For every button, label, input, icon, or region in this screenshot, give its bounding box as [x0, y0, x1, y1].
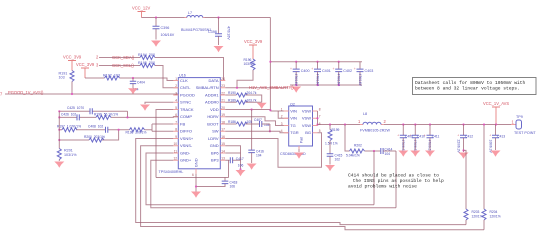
svg-text:C401: C401 — [322, 69, 331, 73]
capacitor C413 — [489, 125, 506, 154]
wire SDA to DATA pin24 — [155, 58, 224, 81]
svg-text:R190: R190 — [228, 91, 236, 95]
power symbol VCC_1V_AVS — [483, 101, 509, 126]
svg-text:220/6.3V: 220/6.3V — [457, 140, 461, 154]
svg-text:+: + — [311, 67, 313, 71]
svg-text:LDRV: LDRV — [208, 136, 219, 141]
wire BP row — [156, 177, 229, 179]
wire SCL to pin2 — [155, 66, 178, 88]
svg-text:SMBAL/RTN: SMBAL/RTN — [196, 85, 219, 90]
svg-text:GND: GND — [210, 143, 219, 148]
wire VSW merge — [317, 111, 319, 126]
ground (C411) — [425, 151, 435, 157]
U16 right pin names — [196, 78, 220, 163]
wire row B (to COMP pin6) — [59, 116, 178, 119]
wire R198 to FB pin7 — [145, 124, 174, 131]
svg-text:1: 1 — [175, 77, 177, 81]
svg-text:120/1%: 120/1% — [472, 215, 483, 219]
svg-text:TEST POINT: TEST POINT — [514, 131, 536, 135]
capacitor C414 — [381, 148, 396, 157]
svg-text:18: 18 — [221, 120, 225, 124]
svg-text:BP3: BP3 — [211, 158, 219, 163]
U16 left pin names — [180, 78, 195, 163]
wire SCL — [99, 65, 140, 67]
wire VSNS+ pin9 loop — [136, 139, 466, 225]
resistor R190 (ADDR1 pin22) — [225, 91, 261, 102]
svg-text:17: 17 — [221, 128, 225, 132]
wire GND pin15 down — [225, 146, 240, 170]
wire DIFFO pin8 down — [152, 130, 173, 132]
wire C414 right sense drop — [395, 151, 397, 208]
ground (C404) — [128, 88, 138, 94]
ground (C417 node) — [236, 170, 246, 176]
svg-text:TPS40400RHL: TPS40400RHL — [159, 170, 184, 174]
svg-text:1: 1 — [281, 107, 283, 111]
svg-text:BLM41PG750SN1: BLM41PG750SN1 — [181, 28, 211, 32]
capacitor C396 — [153, 18, 175, 40]
svg-text:R199: R199 — [332, 128, 340, 132]
capacitor C398 — [208, 18, 231, 46]
svg-text:3: 3 — [281, 122, 283, 126]
resistor R201 — [57, 149, 77, 162]
ground (C410) — [410, 151, 420, 157]
svg-text:1.5R 1%: 1.5R 1% — [325, 142, 338, 146]
svg-text:2: 2 — [281, 115, 283, 119]
capacitor C411 — [427, 123, 440, 153]
ground (U16 pad) — [191, 192, 201, 198]
wire row D — [59, 130, 118, 140]
note box (datasheet) — [413, 78, 537, 95]
wire bottom gnd rail — [290, 84, 362, 86]
transistor Q2 box — [280, 103, 313, 157]
capacitor C410 — [412, 123, 425, 153]
svg-text:+: + — [290, 67, 292, 71]
svg-text:FVMB0105-2R2W: FVMB0105-2R2W — [360, 129, 390, 133]
svg-text:4: 4 — [281, 129, 283, 133]
svg-text:VCC_1V_AVS: VCC_1V_AVS — [483, 101, 509, 106]
svg-text:6: 6 — [192, 173, 194, 177]
ground (SYNC pin4) — [140, 102, 173, 110]
svg-text:VIN: VIN — [290, 108, 297, 113]
svg-text:106: 106 — [230, 185, 236, 189]
svg-text:5: 5 — [319, 129, 321, 133]
svg-text:15: 15 — [221, 142, 225, 146]
polarity marks — [290, 67, 491, 138]
svg-text:TP9: TP9 — [516, 115, 523, 119]
svg-text:COMP: COMP — [180, 114, 192, 119]
svg-text:DATA: DATA — [209, 78, 219, 83]
svg-text:103.7k: 103.7k — [247, 98, 257, 102]
ground (C413) — [491, 151, 501, 157]
svg-text:R197 1.07K/1%: R197 1.07K/1% — [57, 125, 81, 129]
resistor R194 — [138, 53, 155, 60]
svg-text:VSW: VSW — [302, 108, 311, 113]
svg-text:BP6: BP6 — [211, 150, 219, 155]
wire output rail — [384, 124, 511, 126]
svg-text:104: 104 — [264, 123, 270, 127]
U16 right pin numbers — [221, 77, 225, 161]
svg-text:5: 5 — [175, 106, 177, 110]
svg-text:5.04k/1%: 5.04k/1% — [346, 154, 360, 158]
svg-text:2: 2 — [175, 84, 177, 88]
resistor R200 — [84, 135, 105, 142]
svg-text:DIFFO: DIFFO — [180, 129, 192, 134]
svg-text:R201: R201 — [64, 149, 73, 153]
svg-text:ADDR0: ADDR0 — [205, 100, 219, 105]
svg-text:C402: C402 — [343, 69, 352, 73]
capacitor C418 — [196, 178, 238, 189]
capacitor C400 — [293, 61, 310, 87]
svg-text:GND+: GND+ — [180, 158, 192, 163]
power symbol VCC_3V9 (R196 pullup) — [244, 39, 263, 59]
svg-text:L8: L8 — [363, 112, 367, 116]
svg-text:R186: R186 — [228, 120, 236, 124]
svg-text:C408 102: C408 102 — [88, 125, 103, 129]
svg-text:106/16V: 106/16V — [161, 33, 175, 37]
svg-text:106: 106 — [238, 163, 244, 167]
Q2 right pin stubs — [313, 111, 318, 133]
node junction C398 tap — [217, 16, 219, 18]
resistor R202 — [346, 144, 365, 158]
svg-text:103: 103 — [59, 76, 65, 80]
svg-text:3: 3 — [175, 91, 177, 95]
wire R192 to pin1 — [120, 78, 179, 81]
wire PGOOD rail — [5, 93, 178, 95]
capacitor C417 (series on BP3) — [225, 157, 244, 168]
wire top rail — [270, 61, 362, 63]
ground (ADDR divider) — [257, 103, 267, 109]
svg-text:+: + — [409, 134, 411, 138]
inductor L7 — [181, 11, 211, 32]
Q2 pin numbers — [281, 107, 321, 133]
resistor R186 (BOOT) — [225, 120, 252, 126]
wire 12V drop to VIN — [269, 18, 271, 112]
svg-text:476/16V: 476/16V — [294, 74, 298, 87]
Q2 pin names — [290, 108, 299, 135]
wire BP6 pin14 — [225, 152, 240, 154]
wire TRACK pin5 down — [156, 110, 173, 178]
svg-text:Datasheet calls for 800mV to 1: Datasheet calls for 800mV to 1050mV with — [415, 80, 526, 86]
svg-text:+: + — [457, 134, 459, 138]
svg-text:TGR: TGR — [290, 130, 299, 135]
U16 pad pin stub — [195, 169, 197, 174]
resistor R198 — [126, 128, 147, 135]
node junction C404 — [132, 77, 134, 79]
svg-text:GND: GND — [194, 158, 199, 167]
wire ISNS- pin11 loop — [146, 153, 374, 205]
svg-text:VIN: VIN — [290, 116, 297, 121]
resistor R197 — [57, 125, 81, 132]
svg-text:11: 11 — [174, 149, 178, 153]
svg-text:between 8 and 32 linear voltag: between 8 and 32 linear voltage steps. — [415, 86, 520, 92]
svg-text:C396: C396 — [161, 26, 170, 30]
svg-text:PGOOD: PGOOD — [180, 92, 195, 97]
wire row A — [59, 110, 127, 112]
svg-text:FB: FB — [180, 121, 185, 126]
capacitor C412 — [457, 123, 474, 153]
ground (C409) — [398, 151, 408, 157]
svg-text:+: + — [424, 134, 426, 138]
svg-text:R198 200/1%: R198 200/1% — [126, 131, 147, 135]
svg-text:avoid problems with noise: avoid problems with noise — [348, 184, 417, 190]
svg-text:7: 7 — [175, 120, 177, 124]
wire SW to R202 row — [345, 125, 350, 152]
svg-text:VSW: VSW — [302, 116, 311, 121]
svg-text:ADDR1: ADDR1 — [205, 92, 219, 97]
svg-text:+: + — [489, 134, 491, 138]
wire ISNS+ pin12 loop — [151, 160, 396, 208]
svg-text:476/16V: 476/16V — [358, 74, 362, 87]
svg-text:the ISNS pins as possible to h: the ISNS pins as possible to help — [350, 178, 444, 184]
svg-text:104: 104 — [385, 152, 391, 156]
wire C414 left sense drop — [373, 151, 375, 205]
svg-text:8: 8 — [175, 128, 177, 132]
svg-text:R203: R203 — [472, 210, 480, 214]
Q2 left pin stubs — [284, 111, 289, 133]
svg-text:C404: C404 — [137, 81, 145, 85]
svg-text:L7: L7 — [188, 11, 192, 15]
wire row C — [59, 129, 129, 131]
resistor R204 — [482, 123, 501, 229]
svg-text:20: 20 — [221, 106, 225, 110]
U16 left pin numbers — [173, 77, 177, 161]
ground (C416) — [247, 164, 257, 170]
capacitor C403 — [357, 62, 374, 87]
svg-text:C407: C407 — [254, 118, 262, 122]
wire SDA — [99, 57, 140, 59]
resistor R191 — [59, 71, 75, 95]
svg-text:476/16V: 476/16V — [227, 26, 231, 40]
wire 12V rail — [142, 17, 271, 19]
ground (C412) — [459, 153, 469, 159]
svg-text:19: 19 — [221, 113, 225, 117]
svg-text:SYNC: SYNC — [180, 100, 191, 105]
svg-text:23: 23 — [221, 84, 225, 88]
svg-text:102: 102 — [335, 158, 341, 162]
svg-text:+: + — [333, 67, 335, 71]
svg-text:C403: C403 — [365, 69, 374, 73]
svg-text:C417: C417 — [236, 157, 244, 161]
resistor R203 — [464, 209, 483, 225]
U16 right pin stubs — [220, 81, 225, 161]
capacitor C404 — [130, 78, 145, 92]
wire comp ladder left vertical — [58, 111, 60, 148]
svg-text:BOOT: BOOT — [207, 121, 219, 126]
svg-text:10: 10 — [173, 142, 177, 146]
wire SW pin17 to TGR — [225, 131, 288, 133]
capacitor C401 — [314, 61, 331, 87]
svg-text:120/1%: 120/1% — [490, 215, 501, 219]
wire VIN2 jog — [278, 111, 289, 118]
ground (R201) — [54, 162, 64, 168]
svg-text:R204: R204 — [490, 210, 498, 214]
svg-text:4: 4 — [175, 99, 177, 103]
capacitor C407 — [246, 118, 270, 127]
wire VSNS- pin10 loop — [141, 146, 484, 230]
power symbol VCC_3V9 (R191) — [63, 55, 82, 71]
svg-text:SW: SW — [212, 129, 219, 134]
svg-text:7: 7 — [319, 115, 321, 119]
svg-text:9: 9 — [175, 135, 177, 139]
resistor R193 pullup — [237, 58, 255, 88]
svg-text:104: 104 — [256, 154, 262, 158]
svg-text:C426 102: C426 102 — [61, 112, 76, 116]
wire BP3 to bypass row — [228, 160, 230, 177]
svg-text:13: 13 — [221, 157, 225, 161]
wire C412 node to R203 — [464, 150, 467, 209]
test point TP9 — [511, 115, 536, 135]
U16 left pin stubs — [173, 81, 178, 161]
wire BOOT cap to SW — [269, 124, 271, 131]
resistor R196 (56.1K) — [94, 112, 118, 119]
svg-text:476/16V: 476/16V — [315, 74, 319, 87]
wire R202 to C414 — [365, 150, 381, 152]
ground (Q2 pad) — [294, 146, 304, 159]
svg-text:C400: C400 — [301, 69, 310, 73]
svg-text:VSNS+: VSNS+ — [180, 136, 194, 141]
svg-text:VCC_3V9: VCC_3V9 — [76, 62, 95, 67]
ground (C415) — [325, 165, 335, 171]
node junction C396 tap — [155, 16, 157, 18]
capacitor C402 — [335, 61, 352, 87]
svg-text:R202: R202 — [354, 144, 362, 148]
svg-text:12: 12 — [173, 157, 177, 161]
svg-text:Pad: Pad — [300, 137, 304, 143]
svg-text:476/16V: 476/16V — [337, 74, 341, 87]
capacitor C426 — [61, 112, 79, 120]
svg-text:VSNS-: VSNS- — [180, 143, 193, 148]
svg-text:103/1%: 103/1% — [64, 153, 77, 157]
svg-text:VSW: VSW — [302, 123, 311, 128]
resistor R189 (ADDR0 pin21) — [225, 98, 261, 104]
svg-text:GND-: GND- — [180, 150, 191, 155]
svg-text:204.7k: 204.7k — [247, 91, 257, 95]
inductor L8 — [358, 112, 390, 133]
svg-text:22: 22 — [221, 91, 225, 95]
resistor R199 snubber — [325, 125, 340, 154]
capacitor C409 — [400, 123, 413, 153]
ground (C396) — [151, 41, 161, 47]
svg-text:R189: R189 — [228, 98, 236, 102]
svg-text:+: + — [397, 134, 399, 138]
svg-text:H1V_AVS_SMBALRT#(): H1V_AVS_SMBALRT#() — [249, 85, 294, 90]
wire LDRV pin16 to BG — [225, 133, 321, 167]
svg-text:+: + — [354, 67, 356, 71]
svg-text:24: 24 — [221, 77, 225, 81]
svg-text:BG: BG — [305, 130, 311, 135]
svg-text:TG: TG — [290, 123, 296, 128]
capacitor C415 — [327, 154, 343, 165]
wire VDD pin20 to VIN — [225, 110, 288, 112]
svg-text:VDD: VDD — [210, 107, 219, 112]
svg-text:VCC_12V: VCC_12V — [132, 6, 150, 11]
svg-text:8: 8 — [319, 107, 321, 111]
svg-text:21: 21 — [221, 99, 225, 103]
wire row A to row B — [127, 111, 129, 117]
note text (C414 placement) — [348, 173, 444, 190]
svg-text:VCC_3V9: VCC_3V9 — [244, 39, 263, 44]
wire HDRV pin19 to TG — [225, 117, 288, 126]
ground (C398) — [214, 46, 224, 52]
resistor R195 — [138, 61, 155, 68]
svg-text:CNTL: CNTL — [180, 85, 191, 90]
capacitor C408 — [88, 125, 108, 133]
capacitor C425 — [67, 106, 92, 114]
wire SW rail to L8 — [318, 124, 361, 126]
svg-text:C414 should be placed as close: C414 should be placed as close to — [348, 173, 439, 179]
svg-text:105: 105 — [247, 120, 253, 124]
svg-text:TRACK: TRACK — [180, 107, 194, 112]
wire SMBALERT pin23 — [225, 87, 288, 89]
svg-text:VCC_3V9: VCC_3V9 — [63, 55, 82, 60]
svg-text:C425 1070: C425 1070 — [67, 106, 84, 110]
resistor R192 — [103, 74, 120, 81]
power symbol VCC_3V9 (R192) — [76, 62, 95, 78]
svg-text:HDRV: HDRV — [207, 114, 219, 119]
capacitor C416 — [248, 110, 264, 164]
power symbol VCC_12V — [132, 6, 150, 18]
ground (cap bank) — [291, 87, 301, 93]
wire to R192 — [85, 77, 105, 79]
svg-text:16: 16 — [221, 135, 225, 139]
svg-text:6: 6 — [319, 122, 321, 126]
svg-text:14: 14 — [221, 149, 225, 153]
op-amp U16 box — [159, 74, 221, 175]
svg-text:CLK: CLK — [180, 78, 188, 83]
